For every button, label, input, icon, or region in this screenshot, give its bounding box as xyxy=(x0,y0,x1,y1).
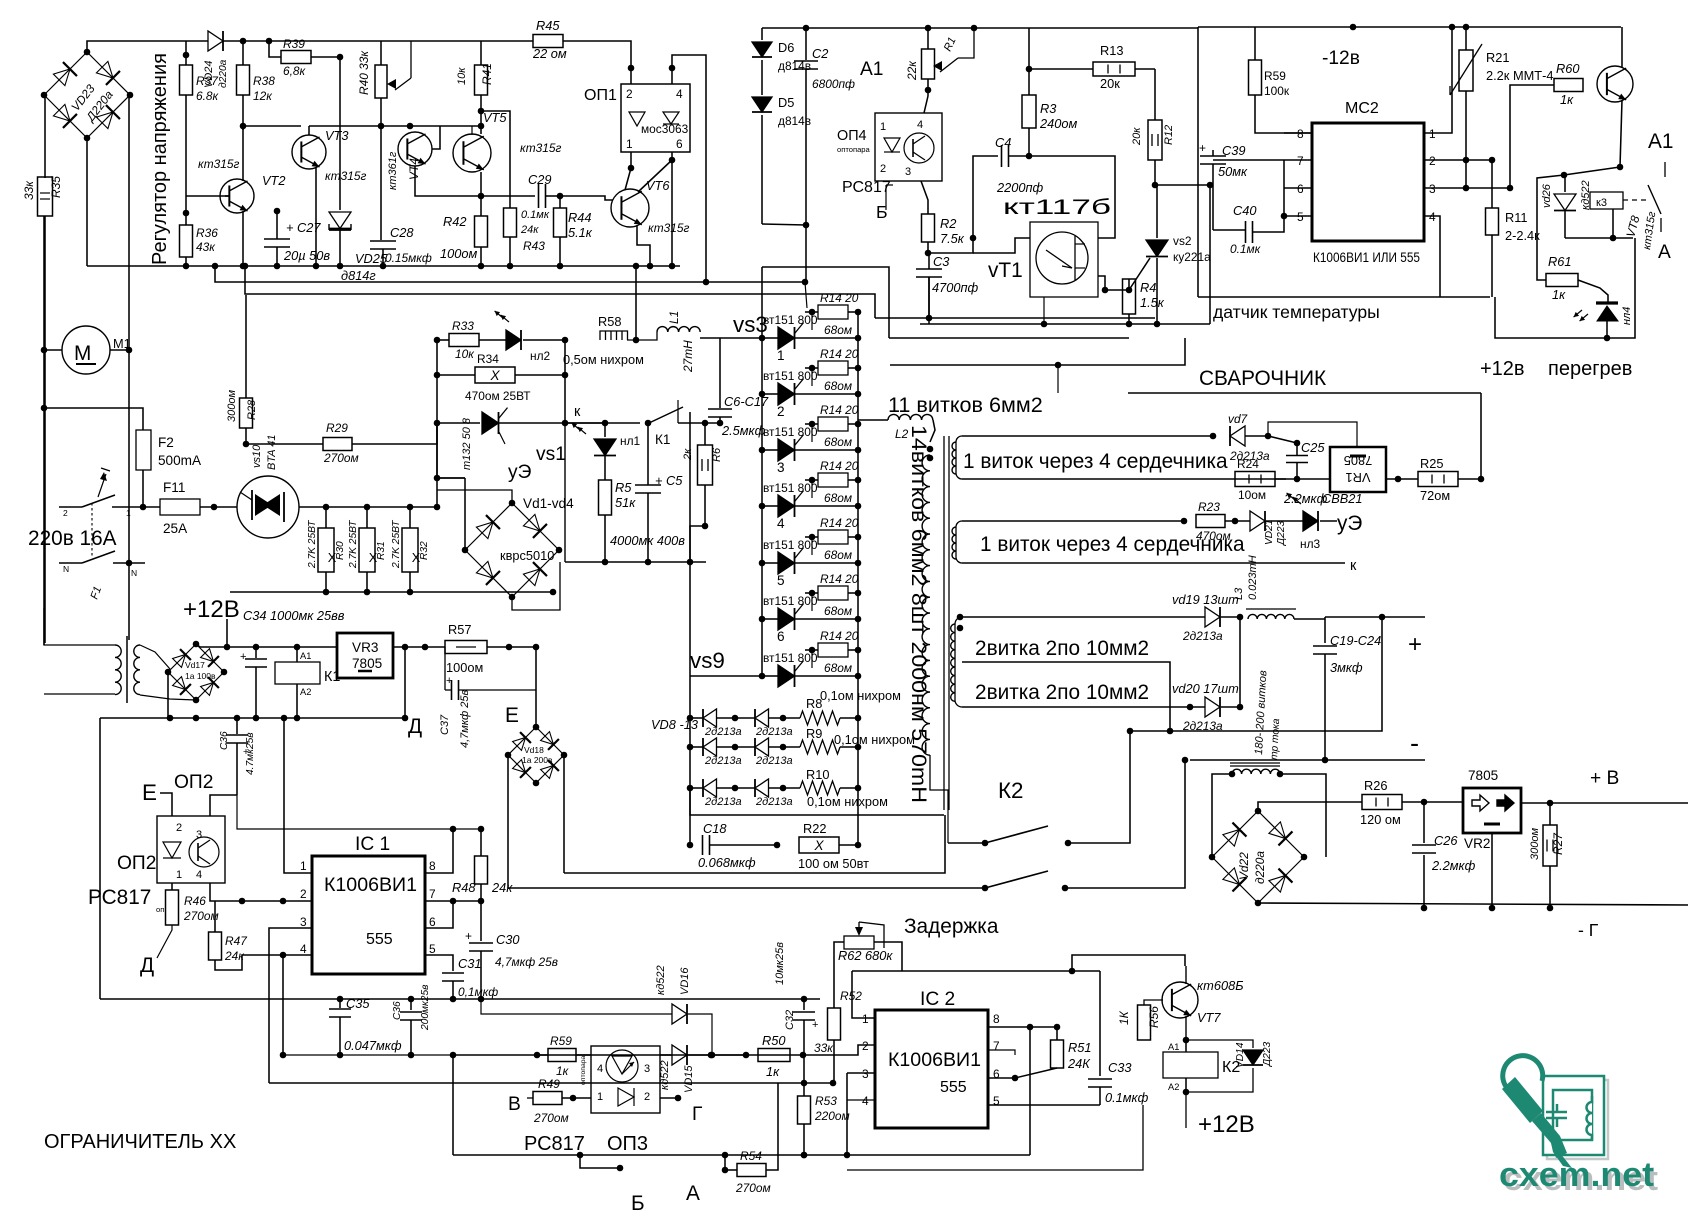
svg-text:72ом: 72ом xyxy=(1420,488,1450,503)
transformer primary winding wavy xyxy=(922,455,930,755)
svg-text:К1006ВИ1 ИЛИ 555: К1006ВИ1 ИЛИ 555 xyxy=(1313,250,1420,265)
svg-text:R27: R27 xyxy=(1551,833,1565,855)
svg-text:2д213а: 2д213а xyxy=(704,726,742,738)
svg-text:X: X xyxy=(813,838,824,853)
thermistor R21 2.2к ММТ-4 xyxy=(1465,27,1467,50)
capacitor C31 0,1мкф xyxy=(442,972,464,974)
svg-text:вт151 800: вт151 800 xyxy=(763,538,818,552)
svg-text:22к: 22к xyxy=(905,61,919,81)
svg-text:R4: R4 xyxy=(1140,280,1156,295)
svg-text:R30: R30 xyxy=(335,541,346,560)
svg-text:4,7мкф 25в: 4,7мкф 25в xyxy=(459,689,471,748)
wire UJT b1 to vs2 gate xyxy=(1098,258,1150,290)
svg-text:8: 8 xyxy=(1297,127,1304,141)
svg-text:R39: R39 xyxy=(283,37,305,51)
wire y1014 VD16 branch xyxy=(481,999,655,1014)
svg-text:3: 3 xyxy=(300,915,307,929)
wire IC2 pin5 xyxy=(988,1104,1100,1106)
regulator VR1 7805 СВВ21 xyxy=(1330,447,1386,492)
resistor R48 24к xyxy=(480,829,482,856)
wire snubber node to box xyxy=(690,526,705,562)
svg-text:R14 20: R14 20 xyxy=(820,403,859,417)
wire ground rail y999 xyxy=(100,998,820,1000)
svg-text:D5: D5 xyxy=(778,95,794,110)
wire vs3 gate feed xyxy=(805,282,807,308)
UJT vT1 box xyxy=(1030,222,1098,297)
wire y185 vs2 node xyxy=(1155,184,1210,186)
thyristor vs7 вт151 800 xyxy=(759,560,766,567)
wire IC1 pin1 xyxy=(284,718,312,873)
svg-text:R3: R3 xyxy=(1040,101,1056,116)
svg-text:4700пф: 4700пф xyxy=(932,280,979,295)
thyristor bus left x762 xyxy=(761,267,763,676)
svg-text:+: + xyxy=(1408,631,1422,658)
wire zener string to vs3 gate xyxy=(762,224,806,225)
resistor R14 20 68ом row 6 xyxy=(809,590,816,597)
svg-text:кт361г: кт361г xyxy=(387,151,399,190)
resistor R10 0,1ом нихром xyxy=(800,781,840,795)
wire IC1 pin7 xyxy=(425,900,481,902)
thyristor vs2 ку221а xyxy=(1156,185,1158,238)
wire winding center tap xyxy=(962,662,1170,731)
svg-text:R14 20: R14 20 xyxy=(820,347,859,361)
svg-text:4: 4 xyxy=(777,516,785,531)
svg-text:VD21: VD21 xyxy=(1264,520,1275,545)
svg-text:R36: R36 xyxy=(196,226,218,240)
resistor R5 51к xyxy=(599,480,612,515)
wire -12в top rail xyxy=(1198,26,1621,28)
svg-text:С36: С36 xyxy=(219,731,230,750)
svg-text:vd20 17шт: vd20 17шт xyxy=(1172,681,1239,696)
svg-text:вт151 800: вт151 800 xyxy=(763,313,818,327)
svg-text:А1: А1 xyxy=(1648,130,1673,153)
VD8-13 left bus xyxy=(689,676,691,788)
svg-text:А1: А1 xyxy=(860,59,883,80)
svg-text:M: M xyxy=(74,342,91,365)
svg-text:6: 6 xyxy=(1297,182,1304,196)
wire right bus x858 lower xyxy=(857,676,859,845)
svg-text:7.5к: 7.5к xyxy=(940,231,965,246)
svg-text:А: А xyxy=(686,1182,700,1205)
svg-text:5: 5 xyxy=(429,942,436,956)
svg-text:R29: R29 xyxy=(326,421,348,435)
svg-text:10к: 10к xyxy=(456,67,468,85)
wire Vd18 left vertex down xyxy=(507,755,509,888)
svg-text:R52: R52 xyxy=(840,989,862,1003)
МС2 pin1 wire xyxy=(1424,27,1452,133)
svg-text:300ом: 300ом xyxy=(1529,828,1541,860)
svg-text:С25: С25 xyxy=(1301,440,1325,455)
resistor R37 6.8к xyxy=(185,41,187,65)
svg-text:VR3: VR3 xyxy=(352,640,378,655)
output winding 2витка 2по 10мм2 center-tapped xyxy=(955,617,962,707)
svg-text:д220а: д220а xyxy=(218,59,229,88)
svg-text:R14 20: R14 20 xyxy=(820,572,859,586)
svg-text:1: 1 xyxy=(862,1012,869,1026)
svg-text:R54: R54 xyxy=(740,1149,762,1163)
svg-text:VT3: VT3 xyxy=(325,128,348,143)
wire VT6 emitter to bottom xyxy=(637,225,650,266)
resistor R6 2к xyxy=(698,445,713,485)
transistor VT2 кт315г xyxy=(220,179,254,213)
svg-text:1 виток через 4 сердечника: 1 виток через 4 сердечника xyxy=(963,450,1228,473)
resistor R58 0,5ом нихром xyxy=(600,331,628,340)
svg-text:68ом: 68ом xyxy=(824,491,852,505)
svg-text:VD15: VD15 xyxy=(683,1065,695,1093)
svg-text:240ом: 240ом xyxy=(1039,116,1077,131)
svg-text:ОГРАНИЧИТЕЛЬ XX: ОГРАНИЧИТЕЛЬ XX xyxy=(44,1131,236,1153)
svg-text:VT4: VT4 xyxy=(407,158,421,180)
diode pair 2д213а row R9 xyxy=(687,744,694,751)
capacitor C28 0.15мкф xyxy=(380,126,382,240)
svg-text:R14 20: R14 20 xyxy=(820,459,859,473)
svg-text:ОП1: ОП1 xyxy=(584,87,617,104)
svg-text:тр тока: тр тока xyxy=(1269,718,1282,760)
wire y592 R30-R32 bottom xyxy=(230,591,553,593)
capacitor C27 20µ 50в xyxy=(276,211,278,239)
svg-text:4: 4 xyxy=(862,1094,869,1108)
thyristor vs4 вт151 800 xyxy=(759,391,766,398)
svg-text:2д213а: 2д213а xyxy=(1182,629,1223,643)
svg-text:10ом: 10ом xyxy=(1238,488,1266,502)
svg-text:+12в: +12в xyxy=(1480,358,1525,380)
svg-text:2: 2 xyxy=(1429,154,1436,168)
svg-text:R31: R31 xyxy=(376,541,387,560)
svg-text:1а 200в: 1а 200в xyxy=(522,755,553,765)
svg-text:5.1к: 5.1к xyxy=(568,225,593,240)
svg-text:1: 1 xyxy=(126,508,131,518)
svg-text:100 ом 50вт: 100 ом 50вт xyxy=(798,856,869,871)
svg-text:R42: R42 xyxy=(443,214,466,229)
resistor R59 100к xyxy=(1254,27,1256,60)
svg-text:24к: 24к xyxy=(491,880,513,895)
svg-text:С37: С37 xyxy=(439,714,451,735)
svg-text:R32: R32 xyxy=(419,541,430,560)
svg-text:25A: 25A xyxy=(163,521,188,536)
wire +5 rail y718 xyxy=(100,717,405,719)
output winding loop 1 виток через 4 сердечника #1 xyxy=(962,435,1213,437)
svg-text:vs2: vs2 xyxy=(1173,234,1192,248)
wire vs9 row to VD8-13 block xyxy=(690,675,762,677)
svg-text:68ом: 68ом xyxy=(824,661,852,675)
svg-text:VR2: VR2 xyxy=(1464,836,1490,851)
wire R45 to ОП1 pin2 xyxy=(563,41,631,84)
resistor R46 270ом xyxy=(171,883,173,890)
svg-text:R2: R2 xyxy=(940,216,956,231)
svg-text:R56: R56 xyxy=(1147,1006,1161,1028)
svg-text:200мк25в: 200мк25в xyxy=(420,984,431,1031)
potentiometer R62 680к xyxy=(844,936,874,949)
svg-text:R45: R45 xyxy=(536,18,560,33)
svg-text:N: N xyxy=(63,564,69,574)
resistor R61 1к xyxy=(1537,175,1564,280)
svg-text:1к: 1к xyxy=(1560,92,1574,107)
cxem.net logo xyxy=(1502,1056,1608,1168)
svg-text:33к: 33к xyxy=(814,1041,833,1055)
svg-text:2: 2 xyxy=(176,822,182,834)
svg-text:-12в: -12в xyxy=(1322,48,1360,69)
transistor VT6 кт315г xyxy=(611,189,649,227)
optocoupler ОП2 РС817 box xyxy=(157,816,225,883)
wire ОП4 pin3 down to R2 xyxy=(921,181,928,214)
motor M1 xyxy=(62,326,110,374)
inductor L3 0.023mH xyxy=(1246,608,1296,610)
svg-text:50мк: 50мк xyxy=(1218,164,1248,179)
svg-text:д220а: д220а xyxy=(1253,851,1267,884)
thyristor bus right x858 xyxy=(857,312,859,676)
МС2 left pin stubs xyxy=(1284,132,1312,134)
wire R62 left to R52 xyxy=(834,942,844,1008)
svg-text:R41: R41 xyxy=(480,63,494,85)
svg-text:VD16: VD16 xyxy=(679,967,691,995)
svg-text:R53: R53 xyxy=(815,1094,837,1108)
svg-text:R23: R23 xyxy=(1198,500,1220,514)
svg-text:10мк25в: 10мк25в xyxy=(774,942,786,985)
svg-text:С29: С29 xyxy=(528,172,551,187)
diode VD15 кд522 xyxy=(660,1054,672,1056)
wire rail y971 to VT7 xyxy=(852,970,1100,972)
svg-text:к3: к3 xyxy=(1596,197,1607,209)
wire IC1 pin8 xyxy=(425,829,453,873)
bridge Vd17 1а 100в xyxy=(196,644,224,672)
thyristor vs3 вт151 800 xyxy=(759,335,766,342)
svg-text:1: 1 xyxy=(300,859,307,873)
wire pin5 rail to y1170 xyxy=(1142,1105,1144,1170)
svg-text:оптопара: оптопара xyxy=(580,1055,587,1085)
svg-text:R9: R9 xyxy=(806,726,822,741)
svg-text:+12В: +12В xyxy=(1198,1111,1255,1138)
resistor R2 7.5к xyxy=(922,214,935,242)
resistor R41 10к xyxy=(480,41,482,65)
МС2 pin3 wire to R60 xyxy=(1424,85,1554,188)
svg-text:R40 33к: R40 33к xyxy=(357,51,371,95)
wire rail y1155 xyxy=(453,1154,1030,1156)
triac vs10 BTA 41 xyxy=(237,476,299,538)
svg-text:BTA 41: BTA 41 xyxy=(266,435,278,470)
svg-text:МС2: МС2 xyxy=(1345,100,1379,117)
output winding loop 1 виток через 4 сердечника #2 xyxy=(962,520,1184,522)
svg-text:+: + xyxy=(812,1019,818,1031)
svg-text:7: 7 xyxy=(1297,154,1304,168)
svg-text:1а 100в: 1а 100в xyxy=(185,671,216,681)
bridge Vd18 1а 200в xyxy=(536,727,564,755)
svg-text:4: 4 xyxy=(196,869,202,881)
wire ОП1 pin1 to VT6 base xyxy=(625,152,631,190)
svg-text:6.8к: 6.8к xyxy=(196,89,219,103)
svg-text:А: А xyxy=(1658,242,1671,263)
wire C36 to ОП2 pin3 xyxy=(210,795,237,816)
wire VT6 collector xyxy=(638,160,672,192)
breaker switch F1 220в 16А xyxy=(59,506,82,508)
wire rail y1083 xyxy=(269,1082,834,1084)
svg-text:5: 5 xyxy=(777,573,785,588)
wire IC2 pin6 to R51 xyxy=(988,1068,1057,1078)
relay К2 coil box xyxy=(1163,1052,1218,1078)
svg-text:+12В: +12В xyxy=(183,596,240,623)
wire IC2 pin4 xyxy=(847,1099,875,1101)
resistor R14 20 68ом row 2 xyxy=(809,365,816,372)
svg-text:R14 20: R14 20 xyxy=(820,516,859,530)
svg-text:Vd1-vd4: Vd1-vd4 xyxy=(523,496,574,511)
capacitor C29 0.1мк xyxy=(538,184,540,208)
wire IC2 pin2 xyxy=(867,1044,875,1046)
aux transformer secondary xyxy=(134,645,140,695)
svg-text:Vd17: Vd17 xyxy=(185,660,205,670)
svg-text:+: + xyxy=(240,651,246,663)
svg-text:7: 7 xyxy=(429,887,436,901)
svg-text:Регулятор напряжения: Регулятор напряжения xyxy=(149,53,171,265)
svg-text:К1: К1 xyxy=(655,432,670,447)
thyristor vs8 вт151 800 xyxy=(759,616,766,623)
wire x636 down to кврс bridge xyxy=(635,266,637,340)
svg-text:2д213а: 2д213а xyxy=(704,755,742,767)
LED нл1 xyxy=(565,422,605,424)
svg-text:R13: R13 xyxy=(1100,43,1123,58)
svg-text:кт608Б: кт608Б xyxy=(1197,978,1244,993)
svg-text:2к: 2к xyxy=(682,448,694,461)
svg-text:К1006ВИ1: К1006ВИ1 xyxy=(888,1050,981,1071)
LED нл3 xyxy=(1303,511,1318,531)
svg-text:оп: оп xyxy=(156,905,164,914)
potentiometer R1 22к xyxy=(927,28,929,49)
inductor L2 xyxy=(858,419,888,421)
svg-text:68ом: 68ом xyxy=(824,435,852,449)
svg-text:вт151 800: вт151 800 xyxy=(763,481,818,495)
zener diode VD25 д814г xyxy=(339,57,341,210)
svg-text:С4: С4 xyxy=(995,135,1011,150)
wire vd7 to VR1 top xyxy=(1268,436,1297,443)
svg-text:ку221а: ку221а xyxy=(1173,250,1211,264)
svg-text:0,1мкф: 0,1мкф xyxy=(458,985,498,999)
svg-text:24к: 24к xyxy=(520,224,539,236)
svg-text:0,1ом нихром: 0,1ом нихром xyxy=(807,794,888,809)
svg-text:ОП3: ОП3 xyxy=(607,1133,648,1155)
resistor R35 33к xyxy=(44,95,46,177)
МС2 pin4 wire xyxy=(1424,216,1440,297)
svg-text:R62 680к: R62 680к xyxy=(838,948,893,963)
svg-text:вт151 800: вт151 800 xyxy=(763,651,818,665)
svg-text:0,1ом нихром: 0,1ом нихром xyxy=(834,732,915,747)
svg-text:С30: С30 xyxy=(496,932,520,947)
svg-text:68ом: 68ом xyxy=(824,379,852,393)
svg-text:470ом: 470ом xyxy=(1196,529,1231,543)
svg-text:3: 3 xyxy=(862,1067,869,1081)
svg-text:1: 1 xyxy=(597,1091,603,1103)
svg-text:С31: С31 xyxy=(458,956,481,971)
wire ct winding to bridge xyxy=(1212,774,1232,857)
svg-text:R5: R5 xyxy=(615,480,632,495)
resistor R14 20 68ом row 4 xyxy=(809,477,816,484)
wire bridge top xyxy=(437,490,512,503)
resistor R33 10к xyxy=(434,337,441,344)
resistor R31 2.7K 25ВТ xyxy=(359,528,375,572)
svg-text:вт151 800: вт151 800 xyxy=(763,369,818,383)
diode VD14 Д223 xyxy=(1186,1040,1253,1048)
svg-text:2д213а: 2д213а xyxy=(755,796,793,808)
svg-text:РС817: РС817 xyxy=(524,1133,585,1155)
diode pair 2д213а row R10 xyxy=(687,785,694,792)
aux transformer primary xyxy=(115,645,121,695)
svg-text:3: 3 xyxy=(1429,182,1436,196)
svg-text:5: 5 xyxy=(993,1094,1000,1108)
LED нл4 xyxy=(1578,280,1608,302)
svg-text:нл2: нл2 xyxy=(530,349,551,363)
svg-text:нл1: нл1 xyxy=(620,434,641,448)
aux transformer core xyxy=(126,636,128,703)
svg-text:R49: R49 xyxy=(538,1077,560,1091)
svg-text:4: 4 xyxy=(1429,210,1436,224)
svg-text:6: 6 xyxy=(993,1067,1000,1081)
svg-text:2: 2 xyxy=(626,87,633,101)
svg-text:2д213а: 2д213а xyxy=(755,755,793,767)
svg-text:R33: R33 xyxy=(452,319,474,333)
svg-text:VR1: VR1 xyxy=(1346,470,1371,485)
svg-text:Задержка: Задержка xyxy=(904,915,999,938)
svg-text:12к: 12к xyxy=(253,89,272,103)
wire top rail A1 section xyxy=(762,27,1198,29)
wire ОП2 pin3 rail to IC1 R48 xyxy=(237,795,481,829)
svg-text:датчик температуры: датчик температуры xyxy=(1213,302,1380,322)
wire К2 to +12В xyxy=(1185,1092,1187,1128)
svg-text:500mA: 500mA xyxy=(158,453,202,468)
svg-text:A1: A1 xyxy=(300,651,311,661)
zener D5 д814в xyxy=(761,60,763,95)
svg-text:R38: R38 xyxy=(253,74,275,88)
optocoupler ОП1 мос3063 box xyxy=(621,84,690,152)
optocoupler ОП4 PC817 box xyxy=(875,113,942,181)
wire F11 node up xyxy=(213,475,215,507)
wire bridge bottom to мкврс net xyxy=(512,562,560,610)
wire y338 return rail xyxy=(889,337,1129,339)
svg-text:vd7: vd7 xyxy=(1228,412,1248,426)
svg-text:С35: С35 xyxy=(346,996,370,1011)
svg-text:33к: 33к xyxy=(22,181,36,200)
wire winding bottom to vd20 xyxy=(962,706,1205,708)
svg-text:R21: R21 xyxy=(1486,50,1509,65)
svg-text:22 ом: 22 ом xyxy=(532,46,567,61)
svg-text:С34 1000мк 25вв: С34 1000мк 25вв xyxy=(243,608,345,623)
svg-text:270ом: 270ом xyxy=(183,909,219,923)
svg-text:R58: R58 xyxy=(598,314,621,329)
svg-text:270ом: 270ом xyxy=(323,451,359,465)
svg-text:Vd22: Vd22 xyxy=(1237,852,1251,880)
svg-text:R43: R43 xyxy=(523,239,545,253)
wire y423 vs1 row xyxy=(436,423,438,507)
wire ОП3 pin2 to Г xyxy=(660,1097,678,1099)
svg-text:ОП4: ОП4 xyxy=(837,128,867,144)
wire rail y294 long xyxy=(245,266,875,318)
svg-text:R28: R28 xyxy=(246,399,258,420)
resistor R25 72ом xyxy=(1418,472,1458,487)
svg-text:2д213а: 2д213а xyxy=(704,796,742,808)
thyristor vs5 вт151 800 xyxy=(759,447,766,454)
transistor VT4 wiring xyxy=(432,126,440,149)
wire ОП2 pin4 to IC1 pin2 xyxy=(210,883,312,901)
resistor R52 33к xyxy=(828,1008,841,1040)
wire bottom rail регулятор y266 xyxy=(87,265,680,267)
svg-text:24К: 24К xyxy=(1067,1056,1091,1071)
resistor R34 470ом 25ВТ xyxy=(434,372,441,379)
wire ОП1 pin6 down xyxy=(671,152,673,266)
wire IC1 pin3 xyxy=(269,928,312,1083)
svg-text:20к: 20к xyxy=(1131,127,1143,146)
regulator VR3 7805 xyxy=(337,633,393,678)
resistor R4 1.5к xyxy=(1128,279,1130,290)
svg-text:1: 1 xyxy=(777,348,785,363)
svg-text:0.1мк: 0.1мк xyxy=(521,209,550,221)
wire pin8 down to rail xyxy=(1029,1027,1031,1155)
wire winding top to vd19 xyxy=(962,616,1205,618)
